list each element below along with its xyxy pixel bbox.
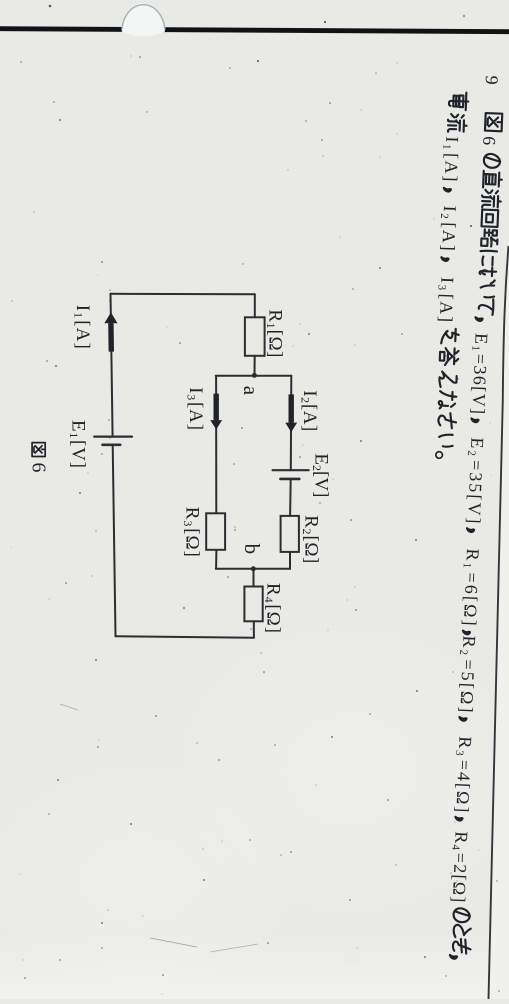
wire: vertical stub through node b <box>216 568 290 570</box>
wire: left rail <box>111 293 255 296</box>
wire: top rail right to R4 <box>253 569 255 587</box>
node b junction dot <box>251 566 256 571</box>
current arrow I2 <box>289 394 294 422</box>
svg-text:b: b <box>240 544 264 555</box>
current arrow I1 <box>108 323 114 351</box>
svg-text:R4​[Ω]: R4​[Ω] <box>262 583 284 633</box>
svg-text:E1​[V]: E1​[V] <box>67 420 89 468</box>
resistor R1 <box>245 317 265 356</box>
svg-text:I2​[A]: I2​[A] <box>298 390 320 431</box>
battery E2: long plate <box>273 469 309 471</box>
svg-text:R1​[Ω]: R1​[Ω] <box>264 309 286 357</box>
battery E1: long plate <box>94 436 132 438</box>
node a junction dot <box>252 373 257 378</box>
svg-text:R3​[Ω]: R3​[Ω] <box>181 507 203 557</box>
punch hole bump <box>122 3 165 37</box>
battery E2: short plate <box>280 478 299 481</box>
wire: vertical stub through node a <box>216 375 292 377</box>
svg-text:6: 6 <box>28 463 50 473</box>
current arrow I3 <box>214 394 219 421</box>
svg-text:E2​[V]: E2​[V] <box>310 453 332 497</box>
wire: bottom rail <box>113 445 116 637</box>
svg-text:6: 6 <box>479 136 499 146</box>
resistor R2 <box>281 516 299 552</box>
right page edge area (lighter, outside page) <box>489 246 509 999</box>
svg-text:9: 9 <box>482 75 502 85</box>
svg-text:R2​[Ω]: R2​[Ω] <box>300 515 322 563</box>
resistor R4 <box>244 587 262 622</box>
black page spine bar (top of image) <box>0 26 509 34</box>
problem statement line 2 <box>430 92 469 459</box>
resistor R3 <box>206 513 225 550</box>
battery E1: short plate <box>103 443 121 446</box>
page edge slanted line <box>489 246 509 999</box>
wire: lower branch (I3/R3) <box>215 376 217 514</box>
problem statement line 1 <box>445 75 506 959</box>
wire: top rail left + node A stub <box>254 294 256 317</box>
figure caption 図6 <box>32 443 45 457</box>
svg-text:a: a <box>239 386 263 396</box>
wire: upper branch (I2/E2/R2) <box>290 376 293 471</box>
faint scratches <box>150 938 197 947</box>
wire: right rail <box>116 636 254 638</box>
